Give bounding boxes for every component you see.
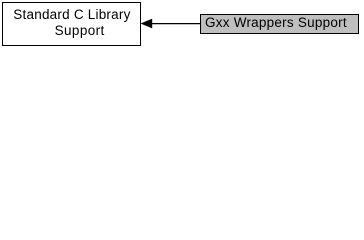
edge arrow: Gxx Wrappers Support -> Standard C Library Support (0, 0, 364, 52)
node box: Standard C Library Support (2, 2, 142, 47)
arrowhead (141, 19, 152, 28)
node box: Gxx Wrappers Support (200, 14, 359, 34)
wire: edge line (151, 23, 200, 25)
